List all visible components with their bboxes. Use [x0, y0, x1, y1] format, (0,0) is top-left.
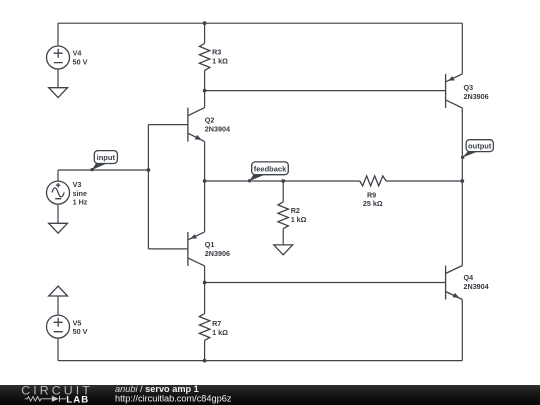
wire V4 to top rail: [57, 23, 59, 46]
node top rail R3: [203, 21, 207, 25]
svg-text:Q4: Q4: [464, 273, 474, 282]
node R3 bottom / Q3 base: [203, 89, 207, 93]
wire top rail: [58, 22, 462, 24]
svg-text:R3: R3: [212, 48, 221, 57]
voltage source V4: [47, 46, 88, 69]
resistor R9: [360, 176, 463, 208]
transistor Q1: [148, 181, 230, 283]
node R7 bottom rail: [203, 359, 207, 363]
voltage source V3 (sine): [47, 180, 88, 207]
resistor R2: [278, 181, 307, 245]
transistor Q2: [148, 91, 230, 181]
svg-text:50 V: 50 V: [73, 327, 88, 336]
label input: [91, 151, 118, 172]
wire V5 to bottom rail: [57, 338, 59, 361]
wire feedback horizontal left: [205, 180, 360, 182]
svg-text:output: output: [468, 142, 492, 151]
node input junction: [147, 168, 151, 172]
svg-text:V3: V3: [73, 180, 82, 189]
label output: [461, 140, 493, 159]
transistor Q3: [446, 23, 489, 181]
svg-text:50 V: 50 V: [73, 57, 88, 66]
wire Q4 base: [205, 282, 446, 284]
ground below V4: [49, 88, 68, 98]
resistor R7: [199, 283, 228, 361]
svg-text:2N3904: 2N3904: [464, 282, 489, 291]
svg-text:1 kΩ: 1 kΩ: [212, 328, 228, 337]
svg-text:http://circuitlab.com/c84gp6z: http://circuitlab.com/c84gp6z: [115, 394, 232, 404]
wire base column Q2-Q1: [147, 125, 149, 249]
ground below R2: [274, 245, 293, 255]
node R2 top: [281, 179, 285, 183]
svg-text:1 Hz: 1 Hz: [73, 198, 88, 207]
voltage source V5: [47, 315, 88, 338]
svg-text:R7: R7: [212, 319, 221, 328]
node output junction: [460, 179, 464, 183]
wire V3 to input wire: [57, 170, 59, 181]
wire Q3 base: [205, 90, 446, 92]
svg-text:R2: R2: [291, 206, 300, 215]
wire V3 to ground: [57, 204, 59, 223]
svg-text:Q2: Q2: [205, 116, 215, 125]
logo resistor-diode LAB: [25, 396, 66, 402]
svg-text:2N3904: 2N3904: [205, 125, 230, 134]
svg-text:input: input: [97, 153, 116, 162]
svg-text:V5: V5: [73, 318, 82, 327]
resistor R3: [199, 23, 228, 90]
ground below V3: [49, 223, 68, 233]
svg-text:LAB: LAB: [66, 394, 89, 405]
logo diode triangle: [52, 396, 59, 402]
transistor Q4: [446, 181, 489, 361]
svg-text:V4: V4: [73, 48, 82, 57]
svg-text:1 kΩ: 1 kΩ: [212, 57, 228, 66]
svg-text:Q1: Q1: [205, 240, 215, 249]
svg-text:feedback: feedback: [254, 165, 287, 174]
svg-text:2N3906: 2N3906: [464, 92, 489, 101]
svg-text:1 kΩ: 1 kΩ: [291, 215, 307, 224]
svg-text:sine: sine: [73, 189, 87, 198]
svg-text:2N3906: 2N3906: [205, 249, 230, 258]
label feedback: [248, 162, 288, 183]
wire bottom rail: [58, 360, 462, 362]
wire flag to V5: [57, 296, 59, 315]
svg-text:Q3: Q3: [464, 83, 474, 92]
power flag above V5: [49, 286, 68, 296]
wire V4 to ground: [57, 69, 59, 88]
svg-text:25 kΩ: 25 kΩ: [363, 199, 383, 208]
node Q2 emitter / feedback: [203, 179, 207, 183]
wire input horizontal: [58, 169, 148, 171]
node Q1 collector / Q4 base / R7: [203, 281, 207, 285]
